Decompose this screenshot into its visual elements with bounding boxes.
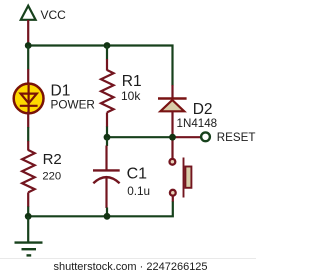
- LED D1 body: [14, 84, 44, 114]
- diode D2: [158, 99, 187, 112]
- wire D2 anode to mid junction and switch (red): [171, 111, 173, 159]
- wire LED cathode pin (red): [27, 112, 29, 128]
- svg-text:1N4148: 1N4148: [177, 117, 218, 130]
- VCC symbol: [21, 6, 36, 20]
- capacitor C1: [93, 170, 120, 183]
- wire R1 bottom pin (red): [106, 112, 108, 127]
- switch S1 contact bottom: [170, 190, 176, 196]
- wire R1 top pin (red): [106, 59, 108, 71]
- svg-text:POWER: POWER: [51, 99, 95, 112]
- wire C1 top (green): [106, 137, 108, 146]
- node junction VCC/top-left: [25, 42, 32, 49]
- wire D1 to R2 (green): [27, 127, 29, 142]
- resistor R2: [22, 150, 35, 192]
- svg-text:R2: R2: [43, 151, 62, 168]
- svg-text:D1: D1: [51, 82, 71, 99]
- svg-text:220: 220: [42, 170, 61, 182]
- svg-text:RESET: RESET: [217, 131, 256, 144]
- node junction mid right: [169, 134, 176, 141]
- svg-text:C1: C1: [127, 166, 148, 183]
- svg-text:0.1u: 0.1u: [127, 185, 150, 198]
- wire RESET stub (red): [173, 136, 201, 138]
- wire D2 top pin (red): [171, 85, 173, 99]
- svg-text:shutterstock.com · 2247266125: shutterstock.com · 2247266125: [53, 261, 207, 273]
- wire middle rail (green): [107, 136, 173, 138]
- switch S1 contact top: [170, 159, 176, 165]
- node junction bottom left: [25, 213, 32, 220]
- wire C1 bottom pin (red): [105, 178, 107, 208]
- node RESET pin circle: [201, 132, 210, 141]
- wire top rail: [28, 46, 172, 86]
- svg-text:R1: R1: [122, 73, 142, 90]
- wire R2 to bottom rail (green): [27, 207, 29, 217]
- watermark separator: [0, 258, 256, 260]
- wire VCC pin (red): [27, 20, 29, 44]
- wire top rail to LED (green): [27, 46, 29, 70]
- ground: [15, 243, 43, 256]
- wire R1 to mid junction (green): [106, 127, 108, 138]
- svg-text:VCC: VCC: [41, 8, 67, 22]
- svg-text:D2: D2: [193, 101, 213, 118]
- wire C1 top pin (red): [105, 146, 107, 171]
- wire R2 top pin (red): [27, 141, 29, 151]
- resistor R1: [101, 70, 114, 112]
- wire LED anode pin (red): [27, 69, 29, 86]
- wire switch bottom pin (red): [172, 195, 174, 202]
- wire C1 to bottom rail (green): [106, 208, 108, 217]
- node junction bottom C1: [104, 213, 111, 220]
- wire ground stem (green): [27, 216, 29, 242]
- switch S1 actuator: [184, 158, 192, 198]
- node junction R1 top: [104, 42, 111, 49]
- wire switch to bottom rail (green): [28, 202, 173, 217]
- svg-text:10k: 10k: [121, 89, 141, 103]
- node junction mid left: [104, 134, 111, 141]
- wire R1 top (green): [106, 46, 108, 60]
- wire R2 bottom pin (red): [27, 192, 29, 207]
